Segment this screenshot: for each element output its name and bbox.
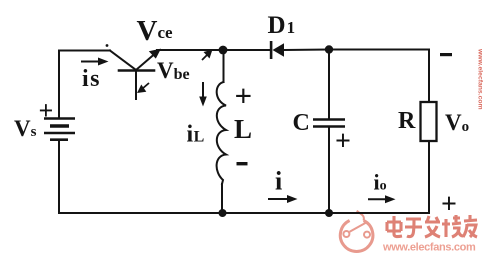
- svg-text:www.elecfans.com: www.elecfans.com: [382, 242, 476, 254]
- svg-text:C: C: [293, 110, 310, 136]
- svg-text:+: +: [39, 96, 54, 125]
- svg-text:D1: D1: [268, 12, 296, 39]
- svg-text:is: is: [82, 66, 101, 92]
- svg-text:Vce: Vce: [137, 15, 173, 47]
- svg-text:Vbe: Vbe: [157, 58, 190, 83]
- svg-text:io: io: [374, 170, 387, 195]
- svg-text:L: L: [234, 114, 252, 144]
- svg-text:+: +: [335, 126, 351, 157]
- svg-text:Vs: Vs: [14, 116, 37, 141]
- svg-text:i: i: [275, 167, 282, 196]
- svg-text:www.elecfans.com: www.elecfans.com: [477, 48, 484, 110]
- svg-text:R: R: [398, 108, 416, 134]
- svg-text:Vo: Vo: [445, 110, 469, 135]
- svg-text:iL: iL: [187, 122, 205, 148]
- svg-text:+: +: [441, 189, 457, 220]
- svg-text:+: +: [235, 78, 253, 113]
